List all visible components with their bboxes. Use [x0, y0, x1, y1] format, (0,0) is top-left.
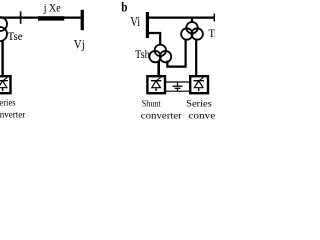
wire: stub from line down to Tse primary [191, 17, 193, 23]
svg-text:Tse: Tse [8, 29, 23, 43]
node: line end stub at right edge [214, 14, 215, 22]
wire: link from Tsh winding to Tse winding [167, 39, 185, 66]
svg-text:b: b [121, 1, 127, 16]
shunt converter box [147, 76, 165, 93]
wire: line from bus Vi to the right (to Tse and beyond) [149, 17, 215, 19]
bus Vj [81, 10, 84, 30]
svg-text:Series: Series [186, 99, 212, 110]
transformer Tsh (three-winding) [149, 45, 171, 63]
thyristor valve icon in series converter [0, 77, 8, 91]
svg-text:converter: converter [0, 110, 26, 120]
svg-text:converter: converter [141, 111, 183, 120]
wire: DC link bottom rail [166, 90, 189, 92]
wire: transmission line from Tse to bus Vj (figure a) [0, 17, 81, 19]
svg-text:converter: converter [188, 111, 215, 120]
reactor jXe (series reactance bar) [38, 16, 64, 20]
transformer Tse (two-winding, cut off at left edge) [0, 17, 7, 41]
wire: Tsh secondary down to shunt converter [157, 61, 160, 77]
node: tap tick on line [20, 11, 22, 23]
svg-text:Series: Series [0, 98, 16, 109]
wire: DC link top rail [166, 81, 189, 83]
svg-text:j Xe: j Xe [43, 1, 61, 15]
svg-text:Tse: Tse [208, 26, 215, 40]
thyristor valve icon in series converter (figure b) [194, 77, 204, 91]
series converter box (figure b) [190, 76, 208, 93]
svg-text:Vi: Vi [130, 14, 140, 29]
bus Vi [146, 12, 149, 38]
wire: Tse secondary down to series converter [1, 40, 3, 76]
wire: Tse winding down to series converter [195, 39, 197, 77]
series converter box (cut off at left edge) [0, 76, 11, 93]
svg-text:Shunt: Shunt [142, 99, 161, 110]
svg-text:Vj: Vj [74, 36, 85, 51]
transformer Tse (three-winding, figure b) [181, 22, 203, 40]
wire: branch from bus Vi to Tsh [149, 33, 160, 45]
svg-text:Tsh: Tsh [135, 47, 150, 61]
thyristor valve icon in shunt converter [151, 77, 161, 91]
capacitor: DC link capacitor [173, 82, 183, 91]
